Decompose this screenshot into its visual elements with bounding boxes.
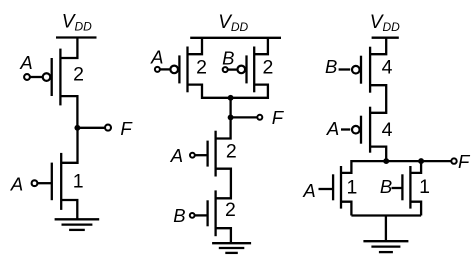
wire: input A to N2A gate [195, 154, 208, 156]
wire: P2A source down to output bus [188, 85, 231, 98]
wire: input A to N3A gate [319, 188, 334, 190]
wire: input A to P1 gate bubble [30, 76, 43, 78]
svg-text:2: 2 [262, 57, 273, 79]
svg-text:A: A [302, 180, 315, 201]
wire: output node down to N2A drain stub [216, 98, 231, 139]
svg-text:1: 1 [73, 171, 84, 193]
wire: P1 drain stub to VDD rail [60, 38, 77, 59]
svg-text:B: B [173, 205, 185, 226]
wire: output node line (NOR2) [341, 161, 451, 173]
wire: pull-down sources rail (NOR2) [351, 214, 421, 216]
svg-text:A: A [10, 174, 23, 195]
terminal circle: input A (P2A) [155, 67, 160, 72]
svg-text:4: 4 [382, 119, 393, 141]
VDD rail (NAND2) [190, 37, 281, 39]
svg-text:1: 1 [346, 177, 357, 199]
junction: output node at P3A source (NOR2) [383, 158, 389, 164]
wire: N1 source stub down to ground [61, 200, 77, 219]
terminal circle: input A (N1) [32, 180, 38, 186]
nmos N2B (NAND2 pull-down B, W=2) [208, 190, 216, 236]
wire: output node to terminal F (NAND2) [231, 116, 258, 118]
wire: N3A source stub down to ground rail [341, 202, 351, 216]
svg-text:B: B [222, 47, 234, 68]
svg-text:1: 1 [419, 176, 430, 198]
terminal circle: input B (N2B) [190, 213, 195, 218]
wire: N2A source stub to N2B drain stub [216, 169, 231, 199]
wire: N2B source stub down to ground [216, 228, 231, 243]
junction: output node F (inverter) [74, 125, 80, 131]
wire: input B to N2B gate [195, 214, 208, 216]
wire: N3B source stub down to ground rail [410, 202, 421, 216]
nmos N2A (NAND2 pull-down A, W=2) [208, 131, 216, 177]
svg-text:4: 4 [382, 56, 393, 78]
wire: input A to P2A gate bubble [160, 68, 171, 70]
wire: P1 source stub down to output node [60, 96, 77, 128]
VDD rail (inverter) [56, 36, 97, 38]
wire: input A to N1 gate [37, 182, 51, 184]
ground symbol (NAND2) [212, 243, 251, 253]
terminal circle: input A (P1) [24, 74, 30, 80]
wire: input B to N3B gate [392, 187, 403, 189]
terminal circle: output F (NOR2) [451, 158, 456, 163]
wire: P2A drain to VDD rail [188, 38, 203, 54]
junction: pull-up sources node (NAND2) [228, 95, 234, 101]
wire: sources rail down to ground (NOR2) [385, 216, 387, 242]
nmos N1 (inverter pull-down, W=1) [52, 153, 61, 210]
svg-text:B: B [325, 56, 337, 77]
junction: output node F (NAND2) [228, 114, 234, 120]
terminal circle: input B (P2B) [223, 67, 228, 72]
wire: P3B source down to P3A drain [370, 85, 386, 113]
wire: P3B drain to VDD rail [370, 38, 386, 55]
svg-text:F: F [458, 151, 471, 172]
svg-text:2: 2 [73, 63, 84, 85]
terminal circle: input A (N2A) [190, 153, 195, 158]
wire: output node to terminal F [77, 127, 105, 129]
wire: P2B drain to VDD rail [254, 38, 268, 54]
nmos N3A (NOR2 pull-down A, W=1) [333, 166, 341, 209]
wire: P2B source down to output bus [231, 85, 268, 98]
pmos P3B (NOR2 pull-up B, W=4) [352, 47, 370, 93]
nmos N3B (NOR2 pull-down B, W=1) [402, 166, 410, 209]
ground symbol (NOR2) [363, 241, 408, 252]
svg-text:2: 2 [196, 56, 207, 78]
svg-text:A: A [19, 52, 32, 73]
svg-text:A: A [150, 46, 163, 67]
ground symbol (inverter) [55, 219, 100, 230]
pmos P1 (inverter pull-up, W=2) [43, 49, 61, 106]
wire: input B to P2B gate bubble [228, 68, 238, 70]
wire: input B to P3B gate bubble [339, 68, 351, 70]
svg-text:2: 2 [226, 141, 237, 163]
wire: N3B drain stub up to output node [410, 161, 421, 173]
pmos P2A (NAND2 pull-up A, W=2) [170, 47, 187, 93]
svg-text:A: A [170, 145, 183, 166]
svg-text:B: B [380, 176, 392, 197]
svg-text:2: 2 [225, 199, 236, 221]
terminal circle: output F (NAND2) [257, 115, 262, 120]
svg-text:A: A [326, 118, 339, 139]
terminal circle: output F (inverter) [105, 125, 111, 131]
wire: input A to P3A gate bubble [341, 128, 350, 130]
svg-text:F: F [272, 107, 285, 128]
wire: N1 drain stub up to output node [61, 128, 77, 163]
pmos P2B (NAND2 pull-up B, W=2) [238, 47, 255, 93]
wire: P3A source down to output node [370, 147, 386, 162]
VDD rail (NOR2) [372, 37, 399, 39]
junction: output node at N3B drain (NOR2) [418, 158, 424, 164]
svg-text:F: F [120, 118, 133, 139]
pmos P3A (NOR2 pull-up A, W=4) [352, 107, 370, 153]
